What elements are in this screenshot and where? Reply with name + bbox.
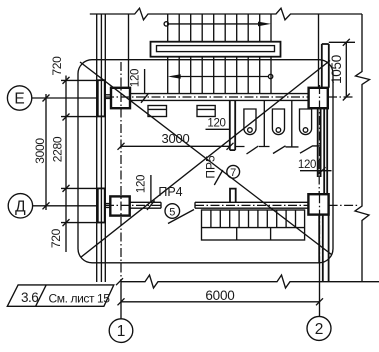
axis 2 dash-dot vertical [319,85,321,160]
tick at D on outer line [43,202,50,209]
WC partition wall 120 (vertical) [230,100,235,150]
partition south stub on D wall [230,189,236,203]
column E2 [309,88,328,108]
axis D dash-dot extension right [329,204,360,206]
tick 1050 top [343,39,350,46]
1050 dimension line [345,42,347,97]
pilaster at axis D [98,188,105,222]
tick 3000 right [227,143,234,150]
leader slash for circle 7 [214,170,223,185]
callout parallelogram 3.6 Sm. list 15 [7,285,114,306]
3000 dimension in left room [121,145,230,147]
lower flight direction line with start circle and left arrow [168,74,273,79]
axis E dash-dot extension right [328,96,355,98]
axis circle 2 [307,316,331,340]
tick 120 D row [147,200,155,210]
tick 1050 bottom [343,94,350,101]
column D1 [110,196,129,215]
svg-text:720: 720 [50,56,64,76]
stall door 2 [273,146,286,154]
svg-text:См. лист 15: См. лист 15 [49,292,111,306]
svg-text:1050: 1050 [329,55,344,84]
axis D line from circle [33,205,98,207]
stall divider 2 [263,100,265,146]
left wall (three vertical lines) [97,14,106,282]
extension line to pilaster D bottom [61,222,98,224]
svg-text:3000: 3000 [161,131,189,146]
axis 2 dash-dot lower segment [319,194,321,263]
upper stair flight treads [168,14,271,42]
svg-text:120: 120 [136,175,148,193]
toilet 2 [272,109,284,135]
svg-text:ПР4: ПР4 [158,185,182,199]
sink 1 [148,106,167,117]
axis E dash-dot through wall and columns [105,96,309,98]
opening circle 5 [165,204,180,219]
right border line with two break symbols [355,14,370,282]
svg-text:720: 720 [49,228,63,248]
right wall below column D2 [319,215,328,282]
stairwell inner wall face line [128,14,130,88]
axis E line from circle [32,97,98,99]
svg-text:120: 120 [130,69,142,87]
right wall above column E2 [322,44,329,88]
extension line to pilaster D top [61,187,98,189]
axis 1 solid extension to circle [120,282,122,319]
svg-text:Д: Д [15,198,26,215]
stair handrail inner rectangle [157,46,275,52]
svg-text:1: 1 [117,323,126,340]
svg-text:3.6: 3.6 [21,290,38,305]
column E1 [111,88,130,108]
ticks on inner dimension line [63,77,70,226]
tick at E on outer line [43,95,50,102]
svg-text:120: 120 [298,159,316,171]
outer left dimension line 3000 [45,94,47,210]
axis circle E [7,86,31,110]
fragment boundary rounded rectangle [78,60,333,263]
vertical extension line at axis 2 upper [318,14,320,88]
diagonal cross line 1 (TL to BR) [80,62,332,255]
connector pilaster-column at E [105,95,111,99]
1050 dimension: top extension [329,41,355,43]
opening circle 7 [227,165,240,179]
wall on axis D row: left segment [130,202,161,208]
svg-text:2280: 2280 [51,136,65,162]
column D2 [308,194,328,214]
dimension 120 at E row: extension line [144,69,146,94]
120 right dimension line [300,170,332,172]
wall on axis D row: right segment [195,202,308,208]
dimension 120 at D row: extension line [150,175,152,202]
lower stair flight treads [168,57,271,94]
right wall between columns (WC east wall) [318,108,328,194]
inner left dimension line [65,76,67,253]
pilaster at axis E [98,80,105,116]
6000 dimension line [121,301,320,303]
svg-text:6000: 6000 [205,288,234,303]
svg-text:2: 2 [315,321,324,338]
tick 6000 right [316,298,323,305]
svg-text:3000: 3000 [33,138,47,164]
wall on axis E row (north wall of WC) double line [130,94,309,101]
stair handrail / landing rectangle outer [151,42,281,57]
diagonal cross line 2 (TR to BL) [81,61,331,258]
axis 2 dash-dot between walls [318,160,320,194]
stall door 1 [247,146,259,154]
svg-text:5: 5 [169,207,175,219]
svg-text:ПР5: ПР5 [204,155,218,179]
tick 120 E row [141,93,149,103]
svg-text:Е: Е [14,91,24,108]
tick 6000 left [118,298,125,305]
tick 120 right [319,167,326,174]
stall front stubs [236,146,299,148]
connector pilaster-column at D [105,204,111,208]
extension line to pilaster E top [61,79,98,81]
stall door 3 [300,146,321,153]
bottom edge line with two break symbols [121,275,379,288]
axis circle 1 [109,319,133,343]
svg-text:7: 7 [230,167,236,179]
svg-text:120: 120 [207,118,225,130]
top border wall line with two break symbols [90,8,362,20]
bench block below D wall [202,210,305,240]
tick on bottom edge at axis 1 [116,278,123,285]
tick 3000 left [118,143,125,150]
axis circle D [8,194,32,218]
axis 2 solid extension to circle [319,263,321,317]
extension line to pilaster E bottom [61,116,98,118]
stall divider 3 [291,100,293,146]
axis 1 dash-dot vertical [120,62,122,282]
toilet 1 [244,109,256,135]
toilet 3 [300,109,312,135]
upper flight direction line with start circle and arrow [164,22,271,27]
axis D dash-dot through wall and columns [105,204,161,206]
sink 2 [197,106,215,117]
door leaf in D-wall opening [168,210,194,224]
